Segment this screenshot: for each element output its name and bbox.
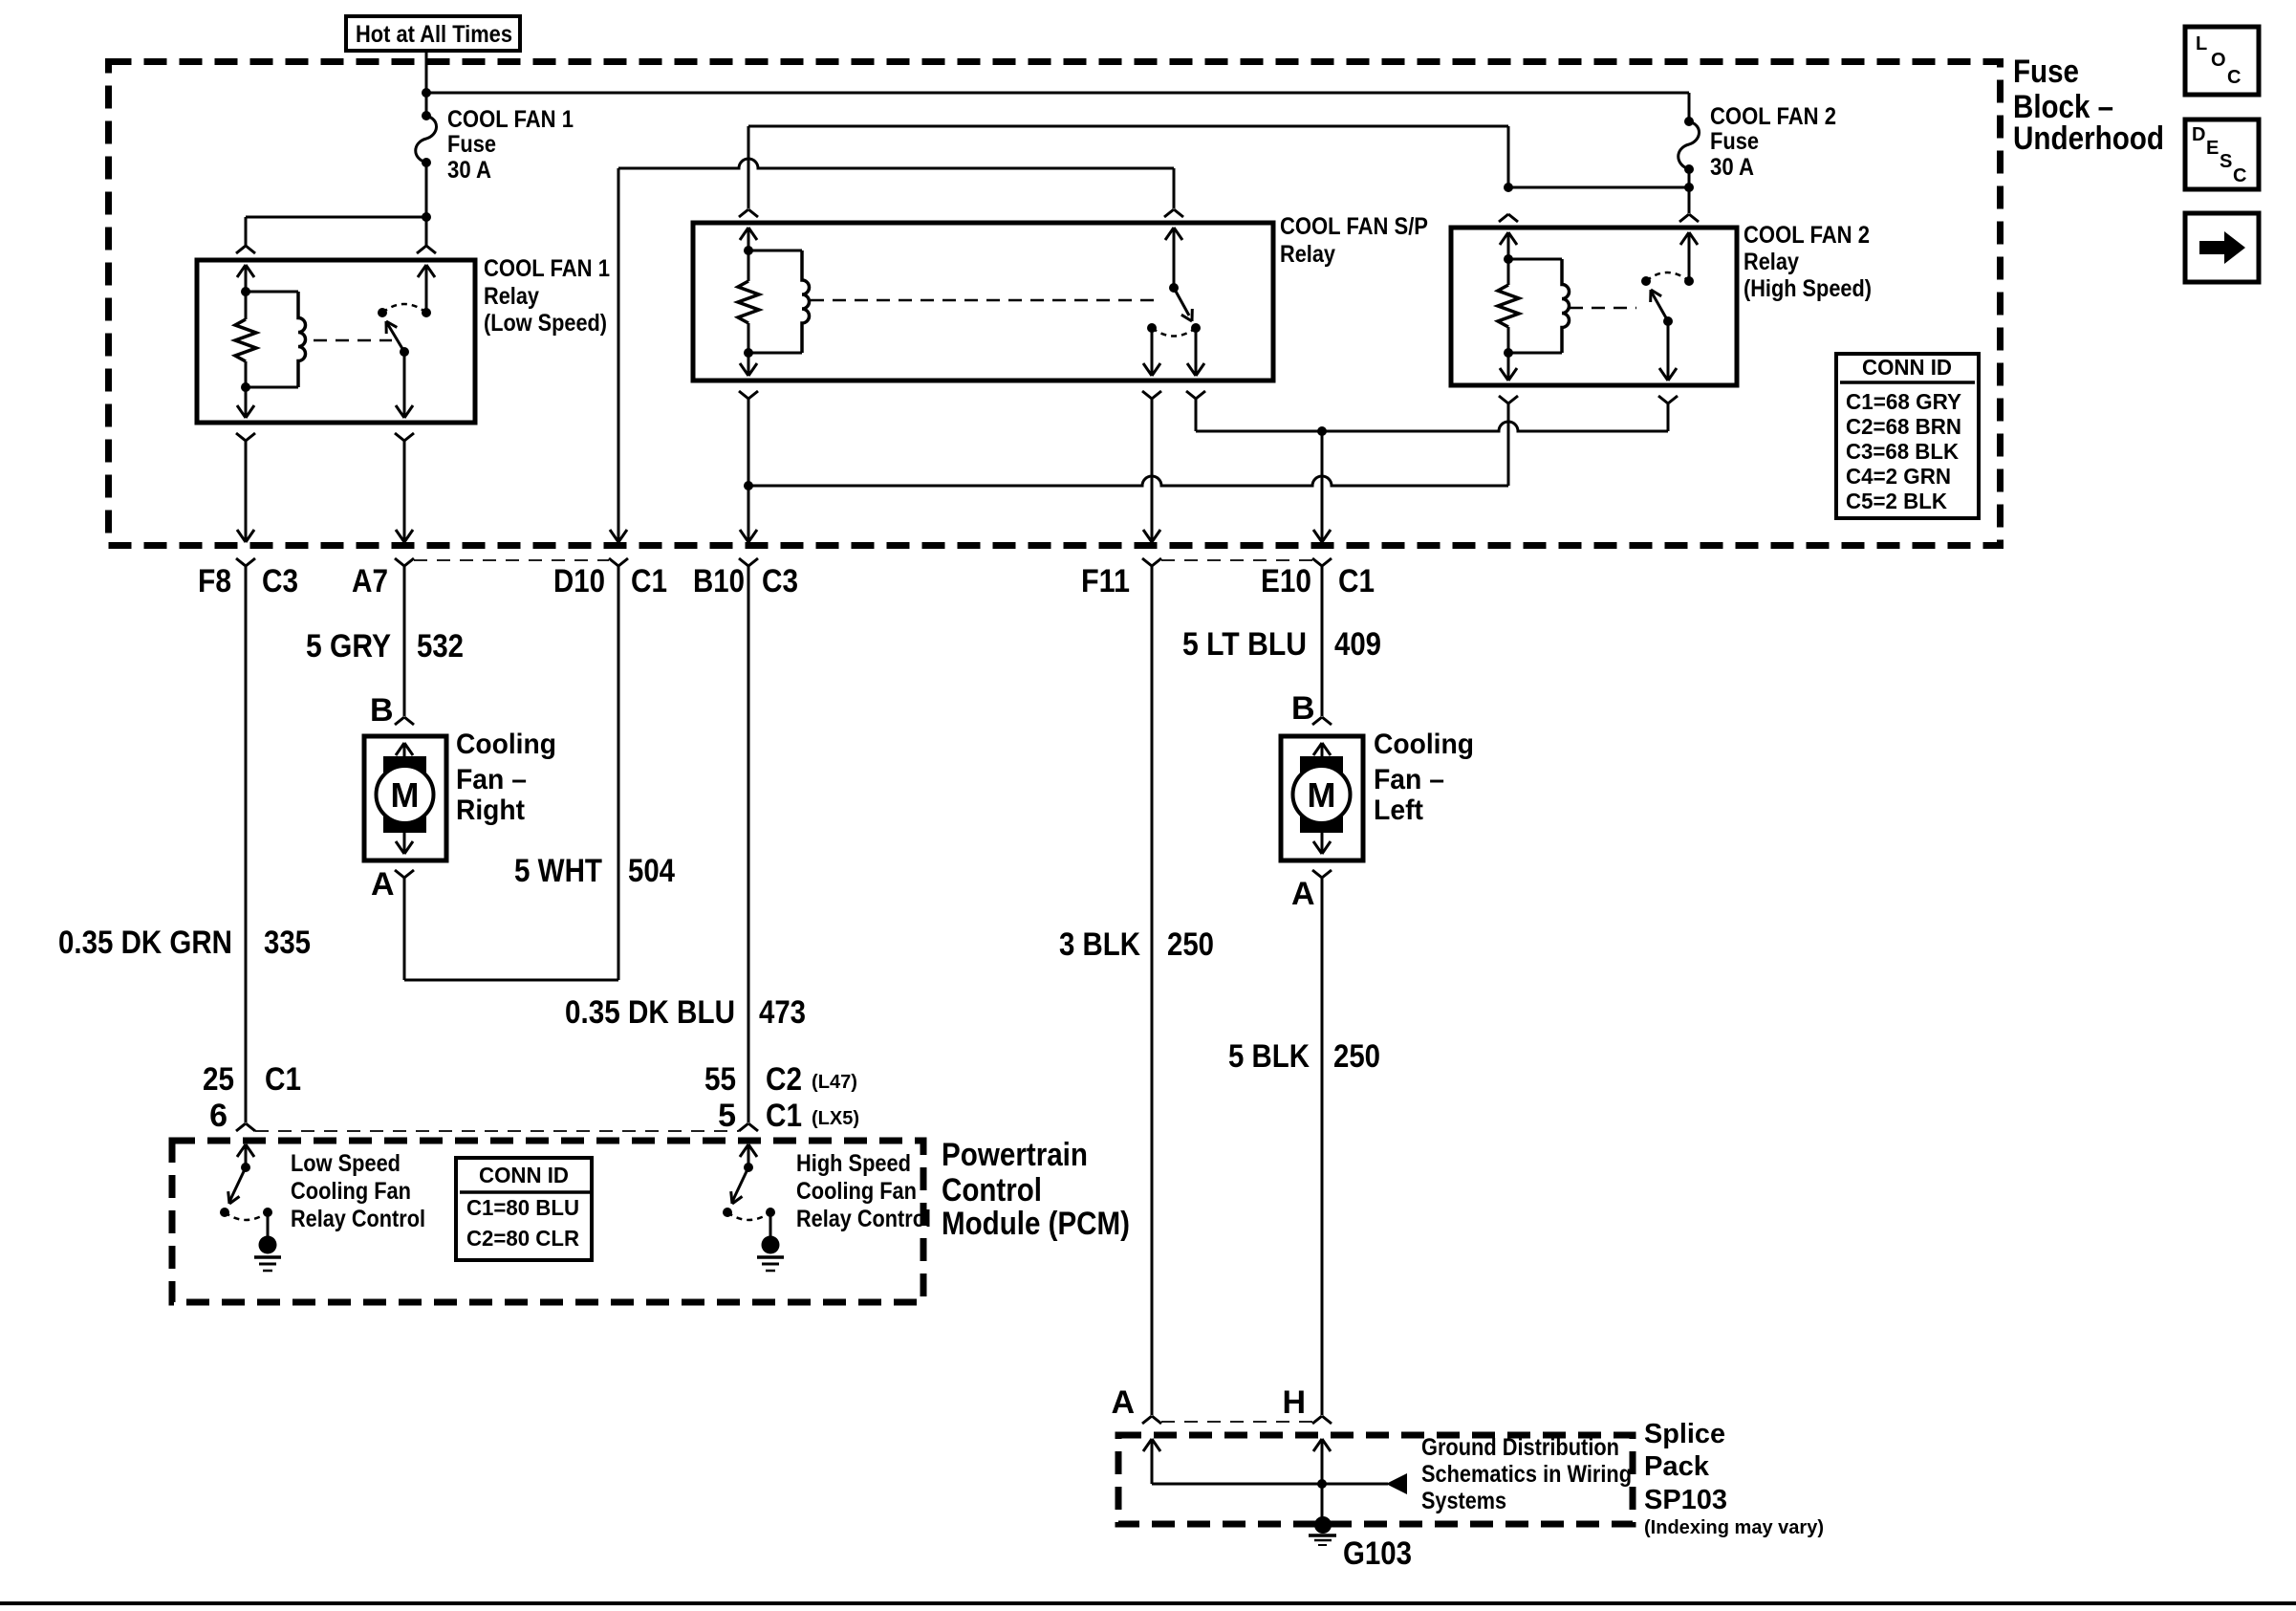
- svg-text:504: 504: [628, 853, 675, 889]
- svg-text:Splice: Splice: [1644, 1419, 1725, 1449]
- svg-text:M: M: [1308, 775, 1336, 815]
- svg-text:C5=2 BLK: C5=2 BLK: [1846, 489, 1947, 513]
- svg-text:5 LT BLU: 5 LT BLU: [1182, 626, 1307, 663]
- svg-text:0.35 DK BLU: 0.35 DK BLU: [565, 994, 735, 1031]
- svg-text:C1: C1: [1338, 563, 1375, 599]
- svg-text:E10: E10: [1261, 563, 1311, 599]
- svg-text:Cooling: Cooling: [456, 729, 556, 760]
- svg-text:Fuse: Fuse: [1710, 128, 1759, 155]
- svg-text:Relay: Relay: [484, 283, 539, 310]
- svg-text:Relay Control: Relay Control: [796, 1206, 931, 1232]
- svg-text:M: M: [391, 775, 420, 815]
- svg-text:C1: C1: [631, 563, 667, 599]
- svg-text:Pack: Pack: [1644, 1451, 1710, 1482]
- svg-text:250: 250: [1167, 926, 1214, 963]
- svg-text:A: A: [371, 866, 395, 903]
- svg-text:C: C: [2233, 165, 2246, 186]
- svg-text:5 GRY: 5 GRY: [306, 628, 391, 664]
- svg-text:D: D: [2192, 124, 2205, 145]
- svg-text:Schematics in Wiring: Schematics in Wiring: [1421, 1461, 1632, 1488]
- svg-text:C3: C3: [262, 563, 298, 599]
- svg-text:0.35 DK GRN: 0.35 DK GRN: [58, 925, 232, 961]
- svg-text:(High Speed): (High Speed): [1744, 275, 1872, 302]
- svg-text:Relay: Relay: [1744, 249, 1799, 275]
- svg-text:(Indexing may vary): (Indexing may vary): [1644, 1517, 1824, 1538]
- svg-text:Relay Control: Relay Control: [291, 1206, 425, 1232]
- svg-text:532: 532: [417, 628, 464, 664]
- svg-text:5: 5: [718, 1098, 736, 1134]
- svg-text:C3: C3: [762, 563, 798, 599]
- svg-text:C1: C1: [265, 1061, 301, 1098]
- svg-text:A7: A7: [352, 563, 388, 599]
- svg-text:6: 6: [209, 1098, 227, 1134]
- svg-text:C: C: [2227, 67, 2241, 88]
- svg-text:SP103: SP103: [1644, 1485, 1727, 1515]
- svg-text:5 BLK: 5 BLK: [1228, 1038, 1310, 1075]
- svg-text:C1: C1: [766, 1098, 802, 1134]
- svg-text:Fuse: Fuse: [447, 131, 496, 158]
- svg-text:3 BLK: 3 BLK: [1059, 926, 1140, 963]
- svg-text:(L47): (L47): [812, 1072, 857, 1093]
- svg-text:30 A: 30 A: [1710, 154, 1754, 181]
- svg-text:F8: F8: [198, 563, 231, 599]
- svg-text:Hot at All Times: Hot at All Times: [356, 21, 512, 48]
- svg-text:25: 25: [203, 1061, 234, 1098]
- svg-text:Low Speed: Low Speed: [291, 1150, 401, 1177]
- svg-text:D10: D10: [553, 563, 605, 599]
- svg-text:Left: Left: [1374, 795, 1423, 826]
- svg-text:335: 335: [264, 925, 311, 961]
- svg-text:250: 250: [1333, 1038, 1380, 1075]
- svg-text:B10: B10: [693, 563, 745, 599]
- svg-text:O: O: [2211, 50, 2226, 71]
- svg-text:Fan –: Fan –: [1374, 764, 1444, 795]
- svg-text:High Speed: High Speed: [796, 1150, 911, 1177]
- svg-text:Relay: Relay: [1280, 241, 1335, 268]
- svg-text:C1=80 BLU: C1=80 BLU: [466, 1195, 579, 1220]
- svg-text:C2: C2: [766, 1061, 802, 1098]
- svg-text:Right: Right: [456, 795, 525, 826]
- svg-text:C1=68 GRY: C1=68 GRY: [1846, 389, 1961, 414]
- svg-text:G103: G103: [1343, 1535, 1412, 1572]
- svg-text:COOL FAN 1: COOL FAN 1: [447, 106, 574, 133]
- svg-text:30 A: 30 A: [447, 157, 491, 184]
- svg-text:Cooling: Cooling: [1374, 729, 1474, 760]
- svg-text:55: 55: [704, 1061, 736, 1098]
- svg-text:Fan –: Fan –: [456, 764, 527, 795]
- svg-text:B: B: [370, 692, 394, 729]
- svg-text:A: A: [1291, 876, 1315, 912]
- svg-text:Module (PCM): Module (PCM): [942, 1206, 1130, 1242]
- svg-text:C3=68 BLK: C3=68 BLK: [1846, 439, 1959, 464]
- svg-text:F11: F11: [1081, 563, 1130, 599]
- svg-text:409: 409: [1334, 626, 1381, 663]
- svg-text:H: H: [1282, 1384, 1306, 1421]
- svg-text:Ground Distribution: Ground Distribution: [1421, 1434, 1619, 1461]
- svg-text:Powertrain: Powertrain: [942, 1137, 1088, 1173]
- svg-text:(Low Speed): (Low Speed): [484, 310, 607, 337]
- svg-text:Fuse: Fuse: [2013, 54, 2079, 90]
- svg-text:B: B: [1291, 690, 1315, 727]
- svg-text:CONN ID: CONN ID: [1862, 355, 1952, 380]
- svg-text:Systems: Systems: [1421, 1488, 1506, 1514]
- svg-text:C2=80 CLR: C2=80 CLR: [466, 1226, 579, 1251]
- svg-text:C2=68 BRN: C2=68 BRN: [1846, 414, 1961, 439]
- svg-text:COOL FAN S/P: COOL FAN S/P: [1280, 213, 1428, 240]
- svg-text:E: E: [2206, 138, 2219, 159]
- svg-text:A: A: [1111, 1384, 1135, 1421]
- svg-text:C4=2 GRN: C4=2 GRN: [1846, 464, 1951, 489]
- svg-text:CONN ID: CONN ID: [479, 1163, 569, 1187]
- svg-text:COOL FAN 2: COOL FAN 2: [1744, 222, 1870, 249]
- svg-text:473: 473: [759, 994, 806, 1031]
- svg-text:S: S: [2220, 151, 2232, 172]
- svg-text:Control: Control: [942, 1172, 1042, 1208]
- svg-text:Underhood: Underhood: [2013, 120, 2164, 157]
- svg-text:5 WHT: 5 WHT: [514, 853, 602, 889]
- svg-text:Cooling Fan: Cooling Fan: [291, 1178, 411, 1205]
- svg-text:L: L: [2196, 33, 2207, 54]
- svg-text:Cooling Fan: Cooling Fan: [796, 1178, 917, 1205]
- svg-text:COOL FAN 2: COOL FAN 2: [1710, 103, 1836, 130]
- svg-text:(LX5): (LX5): [812, 1108, 859, 1129]
- svg-text:COOL FAN 1: COOL FAN 1: [484, 255, 610, 282]
